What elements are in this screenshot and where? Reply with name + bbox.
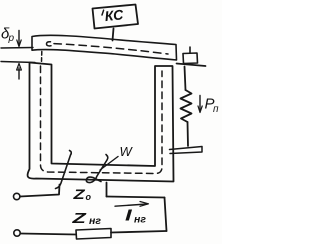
winding W turn 1 [56,151,72,189]
terminal circle upper [14,193,20,199]
svg-text:р: р [8,33,15,44]
svg-text:п: п [213,104,219,115]
flux dashed path [41,66,163,174]
label KC tick [102,10,104,15]
armature dashed centerline [54,44,168,54]
wire load loop top [107,197,165,198]
resistor Rp zigzag [181,90,192,122]
svg-text:КС: КС [104,6,125,24]
magnetic core U-shape [28,63,174,182]
svg-text:нг: нг [134,214,146,226]
terminal bar (output tap) [170,147,203,154]
svg-text:о: о [86,192,92,202]
svg-text:нг: нг [89,215,101,227]
dimension reference line upper [1,47,33,50]
current arrow Inr [115,204,147,206]
leader line W [100,157,118,171]
wire contact to resistor [185,67,186,91]
flux dashes across air gap [41,52,43,63]
dimension arrow up (gap bottom) [18,68,20,79]
terminal circle lower [14,230,20,236]
dimension arrow down (gap top) [18,31,20,46]
arrow Rp direction [199,96,201,112]
dimension reference line lower [1,62,35,63]
wire load loop right side [165,198,167,232]
armature dashed centerline hook [47,42,52,46]
svg-text:Z: Z [72,187,85,203]
wire resistor to terminal bar [187,122,190,146]
svg-text:W: W [120,144,134,159]
armature bar [32,35,177,60]
block U1 KC (control box) [93,5,139,29]
wire load loop from winding (down) [106,183,108,197]
contact base line [177,64,206,67]
winding W turn 2 [86,155,107,183]
wire stem KC to armature [113,29,114,41]
wire lower terminal to load box [21,234,77,235]
contact block stub [189,47,191,53]
wire upper terminal to winding [20,185,60,197]
load box Znr [76,229,111,240]
svg-text:Z: Z [71,209,86,226]
wire load loop bottom right [111,231,167,233]
contact block K [183,53,198,64]
